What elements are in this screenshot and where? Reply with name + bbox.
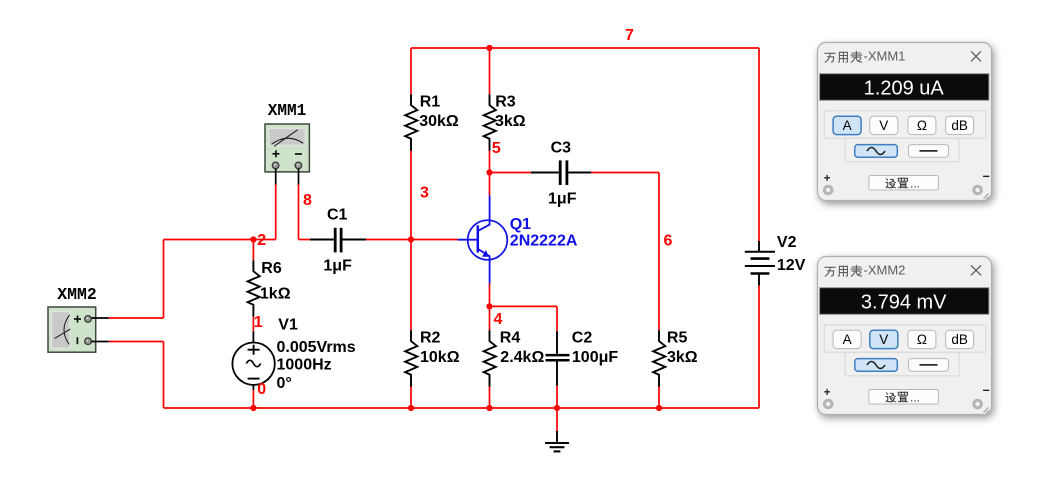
capacitor C2	[546, 331, 570, 385]
svg-text:2.4kΩ: 2.4kΩ	[500, 349, 544, 366]
multimeter panel XMM2 window	[818, 257, 992, 415]
svg-text:-XMM1: -XMM1	[864, 49, 906, 64]
junction R4 bottom	[486, 405, 492, 411]
svg-text:1000Hz: 1000Hz	[277, 357, 332, 374]
multimeter XMM1 icon	[265, 124, 309, 172]
wire ground stub	[556, 408, 558, 431]
svg-text:1: 1	[254, 314, 263, 331]
svg-text:XMM2: XMM2	[57, 286, 97, 305]
wire net1 R6 to V1	[252, 317, 254, 332]
resistor R5	[653, 330, 665, 386]
svg-text:Q1: Q1	[510, 216, 531, 233]
wire V2 bottom lead	[758, 285, 760, 408]
svg-text:5: 5	[492, 140, 501, 157]
wire net2 XMM1 plus	[275, 184, 277, 240]
svg-text:30kΩ: 30kΩ	[419, 113, 459, 130]
junction R2 bottom	[408, 405, 414, 411]
wire R2 bottom	[410, 386, 412, 408]
svg-text:3kΩ: 3kΩ	[495, 113, 526, 130]
wire R5 bottom	[658, 386, 660, 408]
wire net8 to C1	[299, 239, 310, 241]
wire net5 R3 bottom	[489, 150, 491, 172]
ac source V1	[232, 331, 274, 390]
wire net4 to R4	[489, 306, 491, 330]
svg-text:R1: R1	[420, 93, 441, 110]
svg-text:+: +	[824, 387, 831, 399]
svg-text:1kΩ: 1kΩ	[260, 286, 291, 303]
wire net0 bottom rail	[164, 407, 760, 409]
wire R4 bottom	[489, 386, 491, 408]
svg-text:dB: dB	[951, 118, 968, 133]
svg-text:V: V	[879, 118, 888, 133]
junction node 2	[250, 236, 256, 242]
junction R5 bottom	[656, 405, 662, 411]
svg-text:10kΩ: 10kΩ	[420, 349, 460, 366]
resistor R2	[405, 330, 417, 386]
wire R1 top	[410, 48, 412, 94]
svg-text:C3: C3	[551, 140, 572, 157]
svg-text:A: A	[843, 118, 852, 133]
battery V2	[745, 241, 775, 286]
svg-text:C2: C2	[572, 330, 593, 347]
svg-text:0: 0	[257, 381, 266, 398]
wire net0 V1 bottom	[252, 390, 254, 408]
svg-text:R6: R6	[261, 260, 282, 277]
capacitor C1	[310, 228, 366, 253]
resistor R3	[484, 94, 496, 150]
wire C2 top	[556, 306, 558, 331]
wire net8 XMM1 minus	[298, 184, 300, 240]
wire net7 top	[411, 47, 759, 49]
wire V2 top lead	[758, 48, 760, 241]
capacitor C3	[531, 160, 591, 185]
resistor R4	[484, 330, 496, 386]
svg-text:8: 8	[303, 192, 312, 209]
svg-text:Ω: Ω	[917, 118, 927, 133]
wire net6 down to R5	[658, 173, 660, 331]
svg-text:4: 4	[494, 311, 503, 328]
XMM2 pin stubs	[91, 318, 108, 342]
svg-text:...: ...	[910, 390, 920, 404]
ground	[545, 431, 569, 451]
junction node 4	[486, 303, 492, 309]
svg-text:+: +	[824, 173, 831, 185]
svg-text:0.005Vrms: 0.005Vrms	[277, 339, 356, 356]
svg-text:7: 7	[625, 27, 634, 44]
wire net3 to R2	[410, 240, 412, 331]
wire net5 to C3	[490, 172, 532, 174]
transistor Q1	[458, 196, 508, 284]
wire XMM2 plus	[109, 317, 164, 319]
svg-text:12V: 12V	[777, 257, 806, 274]
resistor R1	[405, 94, 417, 150]
wire net2 to R6	[252, 240, 254, 261]
svg-text:V: V	[879, 332, 888, 347]
svg-text:dB: dB	[951, 332, 968, 347]
svg-text:100μF: 100μF	[572, 349, 618, 366]
svg-text:R3: R3	[495, 93, 516, 110]
svg-text:−: −	[983, 170, 990, 184]
junction node 0	[250, 405, 256, 411]
wire net2 to XMM2 plus	[163, 240, 165, 319]
wire net6 C3 right	[591, 172, 659, 174]
svg-text:3.794 mV: 3.794 mV	[861, 291, 947, 313]
wire net4 to C2	[490, 305, 558, 307]
junction node 5	[486, 169, 492, 175]
junction ground	[554, 405, 560, 411]
svg-text:1μF: 1μF	[548, 190, 577, 207]
svg-text:0°: 0°	[277, 375, 292, 392]
svg-text:A: A	[843, 332, 852, 347]
wire net3 C1 to base	[366, 239, 458, 241]
svg-text:1.209 uA: 1.209 uA	[864, 77, 945, 99]
svg-text:V2: V2	[777, 234, 797, 251]
resistor R6	[248, 260, 260, 316]
wire XMM2 minus down	[163, 342, 165, 409]
svg-text:Ω: Ω	[917, 332, 927, 347]
svg-text:2N2222A: 2N2222A	[510, 233, 578, 250]
wire emitter to net4	[489, 284, 491, 307]
wire XMM2 minus	[109, 341, 164, 343]
svg-text:6: 6	[664, 233, 673, 250]
svg-text:2: 2	[257, 232, 266, 249]
wire net2 horizontal	[164, 239, 276, 241]
svg-text:1μF: 1μF	[323, 257, 352, 274]
XMM1 pin stubs	[276, 169, 299, 185]
svg-text:−: −	[983, 384, 990, 398]
junction node 3	[408, 236, 414, 242]
svg-text:3: 3	[420, 185, 429, 202]
svg-text:C1: C1	[327, 207, 348, 224]
wire R3 top	[489, 48, 491, 94]
wire net5 to collector	[489, 173, 491, 196]
wire net3 R1 bottom	[410, 150, 412, 239]
svg-text:XMM1: XMM1	[268, 102, 307, 121]
junction net7	[486, 45, 492, 51]
multimeter XMM2 icon	[48, 307, 96, 352]
svg-text:R5: R5	[667, 330, 688, 347]
svg-text:R2: R2	[420, 330, 441, 347]
svg-text:V1: V1	[278, 317, 298, 334]
svg-text:...: ...	[910, 176, 920, 190]
multimeter panel XMM1 window	[818, 43, 992, 201]
svg-text:-XMM2: -XMM2	[864, 263, 906, 278]
svg-text:R4: R4	[500, 330, 521, 347]
wire C2 bottom	[556, 386, 558, 409]
svg-text:3kΩ: 3kΩ	[667, 349, 698, 366]
